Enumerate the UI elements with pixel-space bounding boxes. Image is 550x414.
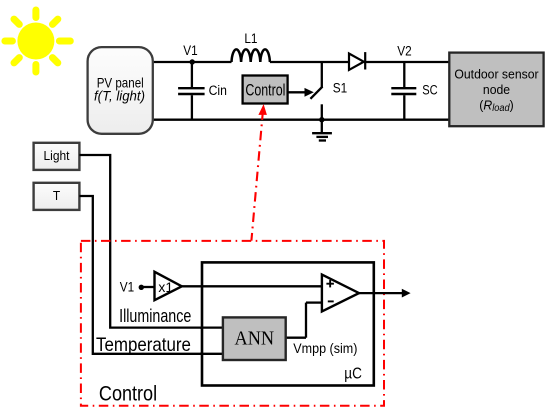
svg-text:node: node — [483, 82, 510, 98]
svg-text:Cin: Cin — [209, 82, 227, 98]
svg-text:µC: µC — [344, 365, 362, 382]
svg-text:T: T — [53, 188, 61, 203]
svg-text:Illuminance: Illuminance — [119, 306, 191, 326]
svg-text:Vmpp (sim): Vmpp (sim) — [293, 341, 357, 357]
svg-text:f(T, light): f(T, light) — [94, 88, 145, 103]
svg-text:V1: V1 — [120, 279, 134, 295]
svg-text:Control: Control — [245, 82, 285, 100]
svg-text:L1: L1 — [244, 30, 257, 46]
svg-text:Outdoor sensor: Outdoor sensor — [454, 66, 539, 82]
svg-text:V1: V1 — [183, 42, 197, 58]
svg-text:ANN: ANN — [234, 328, 274, 350]
svg-text:x1: x1 — [158, 279, 173, 295]
svg-text:Light: Light — [44, 148, 70, 163]
svg-text:V2: V2 — [397, 43, 411, 59]
svg-text:Temperature: Temperature — [96, 334, 191, 355]
svg-text:S1: S1 — [333, 80, 347, 96]
svg-text:Control: Control — [99, 382, 157, 406]
svg-text:SC: SC — [422, 83, 437, 98]
